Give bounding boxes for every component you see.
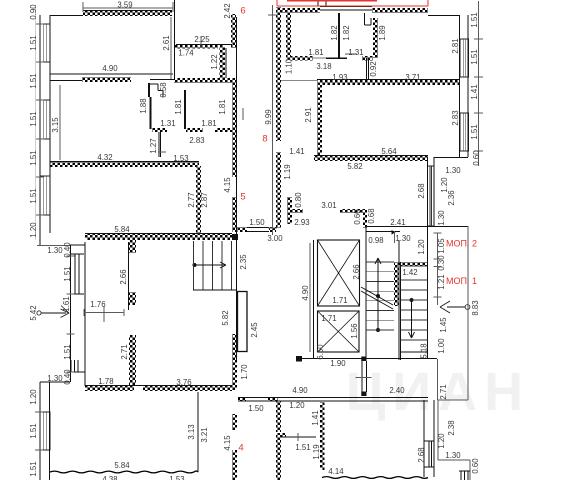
svg-text:2.68: 2.68: [417, 447, 426, 462]
svg-text:2.71: 2.71: [120, 344, 129, 359]
svg-text:2.66: 2.66: [119, 269, 128, 284]
svg-text:2.42: 2.42: [223, 3, 232, 18]
svg-text:1.19: 1.19: [283, 164, 292, 179]
svg-text:0.80: 0.80: [294, 192, 303, 208]
svg-text:1.41: 1.41: [289, 147, 304, 156]
svg-text:1.45: 1.45: [439, 317, 448, 333]
svg-text:1.51: 1.51: [29, 150, 38, 165]
svg-text:1.70: 1.70: [240, 364, 249, 380]
svg-text:1.19: 1.19: [312, 444, 321, 459]
svg-text:1.30: 1.30: [395, 234, 411, 243]
svg-text:0.60: 0.60: [353, 209, 362, 225]
svg-text:1.30: 1.30: [437, 210, 446, 226]
svg-text:5.64: 5.64: [381, 147, 397, 156]
svg-text:6: 6: [240, 5, 245, 16]
svg-text:2.83: 2.83: [451, 110, 460, 125]
svg-text:1.71: 1.71: [332, 296, 347, 305]
svg-text:4.32: 4.32: [97, 153, 112, 162]
svg-text:1.41: 1.41: [470, 84, 479, 99]
svg-text:1.81: 1.81: [308, 48, 323, 57]
svg-text:3.76: 3.76: [176, 378, 191, 387]
svg-text:4.38: 4.38: [102, 475, 117, 480]
svg-text:1.61: 1.61: [62, 296, 71, 311]
svg-text:1.20: 1.20: [440, 177, 449, 193]
svg-text:1.22: 1.22: [210, 54, 219, 69]
svg-text:1.20: 1.20: [29, 222, 38, 238]
svg-text:5.84: 5.84: [114, 461, 130, 470]
svg-text:1.51: 1.51: [29, 188, 38, 203]
svg-text:4.15: 4.15: [223, 177, 232, 193]
svg-text:2.81: 2.81: [451, 38, 460, 53]
svg-text:1.89: 1.89: [378, 25, 387, 40]
svg-text:3.01: 3.01: [321, 201, 336, 210]
svg-text:1.51: 1.51: [29, 423, 38, 438]
svg-text:1.51: 1.51: [63, 266, 72, 281]
svg-text:2.38: 2.38: [447, 420, 456, 435]
svg-text:1.41: 1.41: [311, 410, 320, 425]
svg-text:4.15: 4.15: [223, 435, 232, 451]
svg-text:2.91: 2.91: [304, 107, 313, 122]
svg-text:0.90: 0.90: [29, 4, 38, 20]
svg-text:1.51: 1.51: [29, 461, 38, 476]
svg-text:1.30: 1.30: [47, 246, 63, 255]
svg-text:МОП. 1: МОП. 1: [446, 276, 477, 286]
svg-text:МОП. 2: МОП. 2: [446, 239, 477, 249]
svg-text:1.20: 1.20: [437, 433, 446, 449]
svg-text:0.60: 0.60: [472, 150, 481, 166]
svg-text:1.78: 1.78: [98, 377, 113, 386]
svg-text:1.53: 1.53: [173, 154, 188, 163]
svg-text:3.15: 3.15: [51, 117, 60, 133]
svg-text:1.30: 1.30: [445, 451, 461, 460]
svg-text:1.30: 1.30: [445, 166, 461, 175]
svg-text:1.20: 1.20: [29, 389, 38, 405]
svg-text:1.31: 1.31: [160, 119, 175, 128]
svg-text:0.30: 0.30: [437, 255, 446, 271]
svg-text:1.20: 1.20: [417, 239, 426, 255]
svg-text:1.50: 1.50: [248, 404, 264, 413]
svg-text:2.66: 2.66: [352, 264, 361, 279]
svg-text:1.10: 1.10: [284, 58, 293, 74]
svg-text:1.82: 1.82: [330, 25, 339, 40]
svg-text:1.27: 1.27: [149, 138, 158, 153]
svg-text:1.51: 1.51: [470, 49, 479, 64]
svg-text:3.21: 3.21: [200, 427, 209, 442]
svg-text:1.42: 1.42: [402, 268, 417, 277]
svg-text:0.40: 0.40: [63, 242, 72, 258]
svg-text:1.81: 1.81: [218, 99, 227, 114]
svg-text:8.83: 8.83: [471, 300, 480, 315]
svg-text:5: 5: [240, 191, 245, 202]
svg-text:1.51: 1.51: [29, 35, 38, 50]
svg-text:1.76: 1.76: [90, 300, 105, 309]
svg-text:3.71: 3.71: [405, 73, 420, 82]
svg-text:3.59: 3.59: [117, 0, 132, 9]
svg-text:5.84: 5.84: [114, 225, 130, 234]
svg-text:5.82: 5.82: [347, 162, 362, 171]
svg-text:1.51: 1.51: [295, 443, 310, 452]
svg-text:2.35: 2.35: [239, 254, 248, 270]
svg-text:6.50: 6.50: [316, 344, 325, 360]
svg-text:1.93: 1.93: [332, 73, 347, 82]
svg-text:1.51: 1.51: [29, 111, 38, 126]
svg-text:5.82: 5.82: [221, 310, 230, 325]
svg-text:1.56: 1.56: [350, 323, 359, 338]
svg-text:1.31: 1.31: [348, 48, 363, 57]
svg-text:0.60: 0.60: [471, 458, 480, 474]
svg-text:0.68: 0.68: [367, 208, 376, 223]
svg-text:1.81: 1.81: [201, 119, 216, 128]
svg-text:1.51: 1.51: [470, 124, 479, 139]
svg-text:2.45: 2.45: [250, 322, 259, 338]
svg-text:2.25: 2.25: [194, 35, 210, 44]
svg-text:1.71: 1.71: [321, 314, 336, 323]
svg-text:2.40: 2.40: [389, 386, 405, 395]
svg-text:1.51: 1.51: [63, 344, 72, 359]
svg-text:1.82: 1.82: [342, 25, 351, 40]
svg-text:2.71: 2.71: [439, 384, 448, 399]
svg-text:4.14: 4.14: [328, 467, 344, 476]
svg-text:1.81: 1.81: [174, 99, 183, 114]
svg-text:0.58: 0.58: [159, 82, 168, 97]
svg-text:1.50: 1.50: [249, 218, 265, 227]
svg-text:4.90: 4.90: [292, 386, 308, 395]
svg-text:1.00: 1.00: [437, 338, 446, 354]
svg-text:1.21: 1.21: [437, 274, 446, 289]
svg-text:2.61: 2.61: [162, 35, 171, 50]
svg-text:1.53: 1.53: [169, 475, 184, 480]
svg-text:4.90: 4.90: [102, 64, 118, 73]
svg-text:2.93: 2.93: [294, 218, 309, 227]
svg-text:0.92: 0.92: [369, 61, 378, 76]
svg-text:2.77: 2.77: [187, 192, 196, 207]
svg-text:2.41: 2.41: [390, 218, 405, 227]
svg-text:2.87: 2.87: [200, 192, 209, 207]
svg-text:2.68: 2.68: [417, 183, 426, 198]
svg-text:1.05: 1.05: [437, 238, 446, 254]
svg-text:1.30: 1.30: [47, 374, 63, 383]
svg-text:4: 4: [238, 442, 243, 453]
svg-text:5.18: 5.18: [419, 343, 428, 358]
svg-text:0.40: 0.40: [63, 369, 72, 385]
svg-text:0.98: 0.98: [368, 236, 383, 245]
svg-text:9.99: 9.99: [264, 109, 273, 124]
svg-text:1.74: 1.74: [178, 48, 194, 57]
svg-text:1.51: 1.51: [470, 12, 479, 27]
svg-text:3.00: 3.00: [267, 234, 283, 243]
svg-text:1.88: 1.88: [139, 98, 148, 113]
svg-text:2.83: 2.83: [189, 136, 204, 145]
svg-text:3.18: 3.18: [316, 62, 331, 71]
svg-text:1.20: 1.20: [289, 401, 305, 410]
svg-text:8: 8: [262, 133, 267, 144]
svg-text:5.42: 5.42: [29, 305, 38, 320]
svg-text:4.90: 4.90: [301, 285, 310, 301]
svg-text:1.51: 1.51: [29, 73, 38, 88]
svg-text:1.90: 1.90: [330, 359, 346, 368]
svg-text:3.13: 3.13: [187, 424, 196, 439]
